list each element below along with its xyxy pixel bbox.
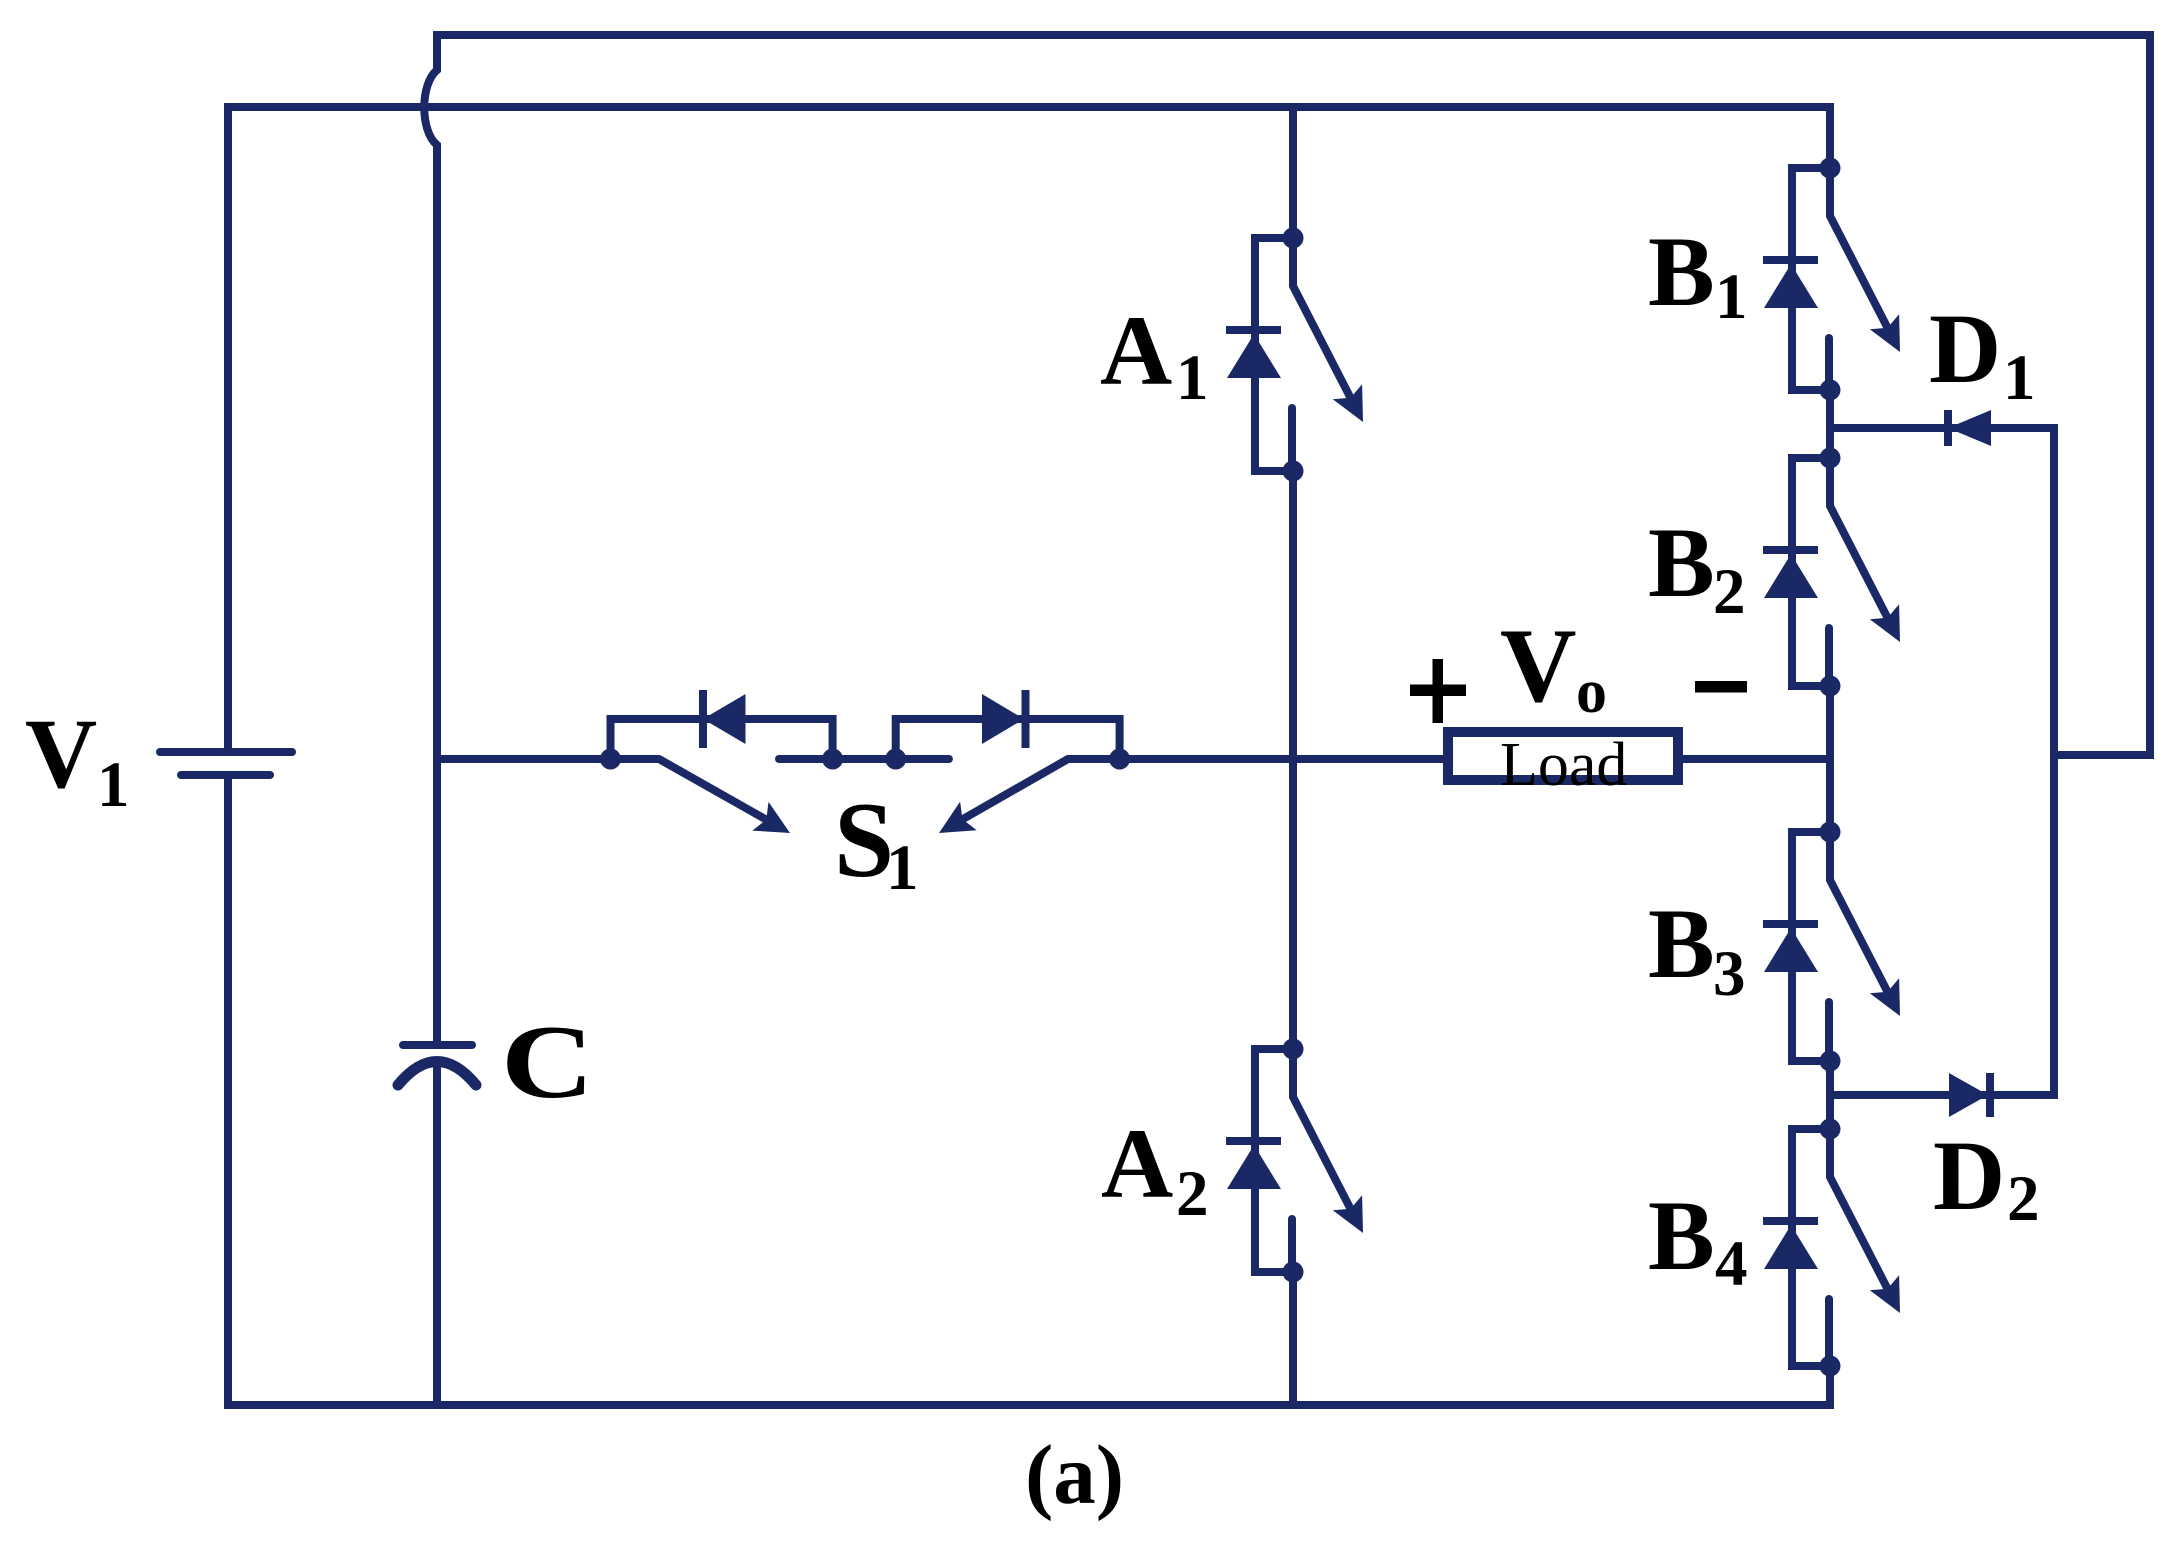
svg-text:1: 1 [886,832,919,904]
svg-text:B: B [1648,507,1715,618]
svg-text:B: B [1648,216,1715,327]
svg-text:B: B [1648,1180,1715,1291]
svg-text:4: 4 [1715,1228,1748,1300]
svg-text:2: 2 [1176,1158,1209,1230]
svg-text:C: C [501,1003,594,1120]
svg-text:1: 1 [97,749,130,821]
svg-text:1: 1 [2003,342,2036,414]
svg-text:V: V [25,698,97,809]
svg-text:3: 3 [1713,938,1746,1010]
svg-text:B: B [1648,888,1715,999]
svg-text:A: A [1101,1108,1173,1219]
svg-text:D: D [1929,293,2001,404]
svg-text:V: V [1500,607,1577,724]
svg-text:D: D [1933,1120,2005,1231]
svg-text:(a): (a) [1025,1428,1124,1522]
svg-text:1: 1 [1176,342,1209,414]
svg-text:2: 2 [2007,1163,2040,1235]
svg-text:o: o [1576,658,1607,726]
svg-text:1: 1 [1715,261,1748,333]
svg-text:2: 2 [1713,556,1746,628]
svg-text:A: A [1100,295,1172,406]
svg-text:Load: Load [1500,731,1627,799]
